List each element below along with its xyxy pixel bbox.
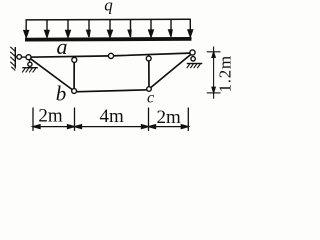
node c: [147, 87, 152, 92]
load arrows: [24, 19, 193, 37]
arrows 2m span: [33, 125, 40, 129]
svg-text:4m: 4m: [100, 106, 125, 127]
extension tick top: [207, 51, 221, 53]
load arrow 6: [128, 20, 131, 37]
right end node: [190, 50, 195, 55]
load arrow 9: [188, 19, 193, 36]
left wall support: [10, 47, 38, 73]
load arrow 2: [45, 20, 49, 37]
tick 3: [148, 108, 150, 131]
horizontal link wall to node: [15, 56, 28, 58]
wall line: [14, 47, 16, 69]
load arrow 7: [149, 19, 154, 36]
lower-left support pin: [28, 62, 32, 66]
load arrow 5: [108, 20, 113, 37]
distributed load top line: [26, 18, 191, 21]
top chord: [29, 53, 193, 57]
right ground hatches: [187, 64, 201, 69]
left diagonal: [29, 57, 75, 91]
tick 2: [74, 108, 76, 131]
right dimension 1.2m: [207, 47, 221, 99]
arrow up: [212, 52, 215, 58]
joint circles (hinges): [17, 50, 195, 94]
right vertical: [148, 56, 150, 89]
right support ground: [187, 64, 203, 69]
svg-text:c: c: [147, 89, 154, 106]
svg-text:2m: 2m: [38, 106, 63, 127]
arrows 4m span: [75, 125, 82, 129]
arrows right 2m span: [149, 125, 156, 129]
svg-text:a: a: [57, 34, 68, 59]
wall pin: [17, 55, 22, 60]
load arrow 8: [169, 19, 172, 36]
dim line: [33, 126, 188, 128]
load beam (thick bar): [25, 37, 192, 41]
svg-text:1.2m: 1.2m: [216, 55, 235, 92]
load arrow 3: [66, 20, 71, 37]
left ground hatches: [22, 68, 36, 73]
bottom chord: [74, 90, 149, 92]
load arrow 1: [24, 20, 29, 37]
vertical link node to lower pin: [28, 57, 31, 64]
wall hatches: [10, 47, 15, 71]
dimension line vertical: [213, 47, 215, 99]
mid top node: [108, 53, 113, 58]
node a-left end: [26, 55, 31, 60]
right support pin: [191, 57, 195, 61]
left ground line: [22, 67, 38, 69]
tick 4: [187, 108, 189, 131]
node b: [72, 89, 77, 94]
right ground line: [187, 63, 203, 65]
load arrow 4: [87, 20, 90, 37]
right diagonal: [149, 53, 193, 89]
extension tick bottom: [207, 92, 221, 94]
node above b: [72, 57, 77, 62]
arrow down: [212, 87, 215, 93]
node above c: [146, 56, 151, 61]
left vertical: [73, 58, 75, 91]
bottom dimension line: [33, 108, 188, 131]
truss members: [29, 53, 193, 92]
tick 1: [32, 108, 34, 131]
svg-text:2m: 2m: [157, 107, 182, 128]
svg-text:q: q: [104, 0, 113, 14]
